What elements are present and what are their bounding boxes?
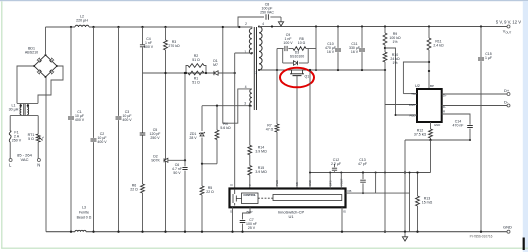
- wire R3 branch down to return bus: [165, 73, 167, 232]
- resistor R14 3.9M: [248, 145, 252, 155]
- svg-text:FB: FB: [348, 189, 352, 193]
- capacitor C9 1nF 100V: [285, 46, 287, 51]
- U1 CONTROL block: [242, 193, 259, 204]
- svg-text:FBD: FBD: [410, 114, 417, 118]
- bias winding pin4 loop wire: [223, 27, 252, 123]
- junction rail-C3: [117, 26, 119, 28]
- wire FB net link: [375, 173, 377, 194]
- svg-text:D1M7: D1M7: [213, 59, 218, 67]
- bias node wire: [202, 163, 217, 165]
- wire RT1 to L1: [37, 116, 39, 134]
- transformer T1 secondary winding (pins 4-3): [259, 27, 262, 71]
- wire C13 to FB wire: [362, 183, 364, 193]
- capacitor C4 1nF 500V: [140, 45, 145, 47]
- wire U1 S pin to primary return bus: [232, 207, 234, 231]
- wire C15 to GND bus: [480, 61, 482, 232]
- transformer T1 bias winding (pins 4-3): [250, 89, 252, 106]
- wire U1 BPP pin to C7: [243, 207, 251, 219]
- wire C7 to bus: [242, 224, 244, 232]
- junction R3 branch - D2: [164, 159, 166, 161]
- wire pin2 to rail: [250, 27, 252, 29]
- wire C3 to return bus: [118, 120, 120, 232]
- wire rail to C10: [337, 27, 339, 48]
- wire U2 GND pin down: [430, 122, 432, 129]
- wire return to U2 FA/P: [384, 70, 386, 105]
- wire bridge AC1 to choke: [17, 66, 34, 103]
- junction return-GND: [309, 69, 311, 71]
- secondary switching node wire: [259, 69, 385, 71]
- capacitor C3 10uF 400V: [116, 117, 122, 119]
- capacitor C1 10uF 400V: [68, 117, 74, 119]
- wire N to RT1: [37, 142, 39, 159]
- wire R15 to U1 V pin: [249, 175, 251, 188]
- fuse F1 2A 250V: [9, 131, 11, 142]
- wire U1 BPS pin up to net: [329, 173, 331, 189]
- wire secondary node to R7: [276, 70, 278, 124]
- wire U1 IS pin to GND bus: [341, 207, 343, 231]
- svg-text:SR: SR: [295, 182, 299, 186]
- capacitor C10 470uF 16V: [335, 49, 341, 51]
- wire U2 gnd net to GND bus: [404, 140, 406, 232]
- svg-text:TM: TM: [411, 92, 416, 96]
- wire rail to Y-cap C8: [238, 17, 264, 27]
- capacitor C15 1uF: [478, 58, 484, 60]
- transformer T1 core: [253, 27, 255, 110]
- junction pin3-R14: [249, 105, 251, 107]
- wire bridge + output to DC rail: [45, 27, 47, 55]
- svg-text:U2: U2: [415, 84, 420, 88]
- diode D1 M7 (clamp): [214, 71, 218, 75]
- svg-text:D-: D-: [443, 105, 446, 109]
- bias pin3 sense wire: [202, 105, 252, 107]
- junction bus: [384, 231, 386, 233]
- svg-text:D+: D+: [504, 88, 510, 93]
- U1 internal primary MOSFET: [233, 189, 242, 206]
- wire C1 to return bus: [70, 120, 72, 232]
- wire R12 node down: [430, 140, 432, 173]
- junction rail-bias loop: [222, 26, 224, 28]
- svg-text:V: V: [248, 184, 252, 186]
- wire rail to C3: [118, 27, 120, 116]
- resistor R3 270k: [164, 40, 168, 50]
- wire R14 to R15: [249, 155, 251, 166]
- primary DC+ rail left segment: [46, 26, 76, 28]
- wire rail to R9: [384, 27, 386, 34]
- wire C2 to return bus: [93, 142, 95, 232]
- inductor L2 220uH: [75, 25, 89, 27]
- wire R9 to R10: [384, 45, 386, 52]
- wire pin1 to drain line: [235, 52, 252, 54]
- capacitor C6 4.7nF 50V: [182, 168, 187, 170]
- primary return / secondary GND bus: [46, 231, 75, 233]
- clamp bus: [143, 72, 235, 74]
- earth arrow to secondary rail: [280, 17, 282, 23]
- wire rail to R3: [165, 27, 167, 40]
- wire R6 to return bus: [142, 193, 144, 232]
- thermistor RT1 5 ohm: [36, 134, 40, 142]
- wire rail to C11: [361, 27, 363, 48]
- snubber right leg to +V rail: [315, 27, 317, 71]
- wire divider tap to U2 FBD: [385, 48, 396, 115]
- junction rail-C1: [70, 26, 72, 28]
- wire into U2 FA/P pin: [385, 104, 417, 106]
- wire U2 R pin to C14: [442, 114, 470, 125]
- Y-capacitor C8 100pF 250VAC: [266, 14, 268, 20]
- svg-text:4: 4: [262, 22, 264, 26]
- long vertical wire clamp bus to bias node: [184, 73, 186, 160]
- primary DC+ rail right segment: [89, 26, 250, 28]
- svg-text:5 V, 9 V, 12 V: 5 V, 9 V, 12 V: [496, 20, 521, 25]
- junction TM tap: [428, 61, 430, 63]
- red highlight ellipse around Q1: [280, 68, 314, 88]
- wire F1 to L1: [9, 116, 11, 131]
- snubber left leg: [276, 49, 278, 71]
- wire R10 to return: [384, 62, 386, 70]
- resistor R6 22 ohm: [141, 184, 145, 193]
- capacitor C2 10uF 400V: [91, 139, 97, 141]
- diode D2 (bias rectifier): [164, 158, 168, 162]
- wire rail to C15: [480, 27, 482, 58]
- wire bridge - output to primary return bus: [45, 77, 47, 232]
- wire U2 D- to terminal: [442, 105, 507, 107]
- svg-text:PI-7856-010716: PI-7856-010716: [470, 235, 493, 239]
- junction rail-C8: [238, 26, 240, 28]
- wire secondary return to U1 GND pin: [309, 70, 311, 189]
- GND bus right segment: [86, 231, 509, 233]
- svg-text:IS: IS: [343, 210, 346, 214]
- common-mode choke L1 30uH: [17, 102, 38, 104]
- svg-text:GND: GND: [503, 225, 512, 230]
- IC U1 InnoSwitch-CP: [230, 189, 346, 208]
- U1 internal dashed link: [258, 197, 273, 199]
- wire net to C13: [362, 173, 364, 180]
- wire R13 to GND bus: [417, 206, 419, 232]
- wire into U2 FBD pin: [396, 114, 418, 116]
- wire bias net to ZD1: [201, 106, 203, 131]
- resistor R5 22 ohm: [200, 186, 204, 195]
- resistor R12 37.5k: [429, 129, 433, 138]
- wire rail to R11: [428, 27, 430, 39]
- wire bias net to R4: [216, 106, 218, 130]
- svg-text:1: 1: [244, 50, 246, 54]
- resistor R13 15 mohm: [416, 196, 420, 206]
- svg-text:S: S: [230, 210, 232, 214]
- wire U1 FB pin right: [346, 192, 410, 194]
- ferrite bead L3 0 ohm: [75, 230, 86, 231]
- wire rail to C2: [93, 27, 95, 138]
- resistor R7 47 ohm: [275, 124, 279, 132]
- wire ZD1 to node: [201, 138, 203, 164]
- secondary BPS/VOUT net wire: [310, 172, 431, 174]
- terminal VOUT: [507, 25, 510, 28]
- wire R11 to U2 BP pin: [428, 50, 430, 89]
- wire bias pin3 to R14: [249, 106, 251, 146]
- diode D3 SS10100: [282, 49, 284, 64]
- svg-text:2: 2: [245, 22, 247, 26]
- svg-text:Q1: Q1: [305, 74, 310, 78]
- resistor R8 10 ohm: [293, 47, 306, 51]
- wire R7 to U1 FWD pin: [276, 132, 278, 189]
- wire C10 down: [337, 52, 339, 70]
- wire C4 to clamp bus: [142, 47, 144, 73]
- capacitor C12 2.2uF: [334, 171, 336, 172]
- capacitor C13 47uF: [360, 180, 366, 182]
- junction rail-R3: [164, 26, 166, 28]
- capacitor C7 100nF 25V: [240, 221, 246, 223]
- terminal N (AC neutral input): [37, 159, 40, 162]
- wire to C6: [184, 160, 186, 166]
- snubber branch C9 + R8: [277, 48, 284, 50]
- capacitor C5 120pF 250V: [140, 133, 146, 135]
- secondary +V output rail: [259, 26, 509, 28]
- svg-text:4: 4: [245, 85, 247, 89]
- svg-text:FA/P: FA/P: [409, 103, 416, 107]
- wire R3 to clamp bus: [165, 50, 167, 73]
- wire R5 to return bus: [201, 195, 203, 232]
- svg-text:C1347 pF: C1347 pF: [358, 158, 367, 166]
- wire rail to C4: [142, 27, 144, 44]
- wire node to R5: [201, 164, 203, 186]
- svg-text:3: 3: [255, 71, 257, 75]
- transformer T1 primary winding (pins 2-1): [249, 29, 252, 55]
- wire to R13: [417, 173, 419, 197]
- svg-text:ZD128 V: ZD128 V: [189, 132, 197, 140]
- wire TM tap to U2 TM pin: [403, 62, 429, 94]
- svg-text:N: N: [37, 163, 40, 168]
- wire L to fuse F1: [9, 142, 11, 159]
- U2 ground net wire: [405, 139, 470, 141]
- capacitor C14 470nF: [467, 126, 473, 128]
- junction bias node: [201, 163, 203, 165]
- svg-text:D-: D-: [504, 100, 509, 105]
- wire R12 to gnd net: [430, 138, 432, 140]
- svg-text:GND: GND: [434, 123, 440, 127]
- IC U2 CHY103 interface controller: [417, 89, 442, 122]
- junction rail-C4: [141, 26, 143, 28]
- terminal GND: [507, 230, 510, 233]
- wire Q1 gate to U1 SR pin: [296, 76, 298, 189]
- resistor R4 5.6k: [215, 130, 219, 140]
- wire U2 D+ to terminal: [442, 93, 507, 95]
- wire C6 to return bus: [184, 171, 186, 232]
- wire U1 VOUT pin up to net: [340, 173, 342, 189]
- junction pin1: [251, 52, 253, 54]
- wire R4 to node: [216, 140, 218, 164]
- resistor R9 100k 1%: [383, 33, 387, 45]
- wire D2 to C6: [168, 159, 185, 161]
- wire C14 to U2 gnd net: [469, 129, 471, 140]
- wire bridge AC2 to choke: [38, 66, 63, 103]
- primary drain line to U1 D pin: [234, 53, 236, 189]
- junction rail-C2: [92, 26, 94, 28]
- U1 secondary controller block: [273, 195, 342, 201]
- wire C11 down: [361, 52, 363, 70]
- capacitor C11 330uF 16V: [359, 49, 365, 51]
- wire into U2 TM pin: [403, 93, 417, 95]
- wire C8 to secondary arrow: [270, 16, 281, 18]
- svg-text:RT15 Ω: RT15 Ω: [28, 133, 35, 141]
- svg-text:CONTROL: CONTROL: [243, 193, 256, 197]
- bridge rectifier BD1 ABS210: [34, 55, 57, 77]
- junction clamp-drain: [234, 72, 236, 74]
- terminal L (AC line input): [9, 159, 12, 162]
- svg-text:3: 3: [244, 102, 246, 106]
- earth ground arrow symbol: [404, 232, 406, 238]
- zener ZD1 28V: [200, 133, 204, 136]
- resistor R10 24k 1%: [383, 52, 387, 62]
- resistor R2 51 ohm (clamp, parallel upper): [186, 66, 188, 74]
- resistor R11 2.4k: [427, 38, 431, 50]
- wire FB branch down to GND bus: [409, 173, 411, 232]
- wire C5 down to R6: [142, 135, 144, 184]
- resistor R1 51 ohm (clamp, lower): [188, 71, 204, 75]
- junction pin3-R4: [216, 105, 218, 107]
- svg-text:BP: BP: [430, 84, 434, 88]
- resistor R15 3.9M: [248, 166, 252, 176]
- wire clamp bus down to C5: [142, 73, 144, 133]
- SR MOSFET Q1: [291, 70, 293, 74]
- svg-text:C151 µF: C151 µF: [485, 52, 492, 60]
- svg-text:D+: D+: [443, 94, 447, 98]
- wire FA/P branch down to GND bus: [384, 105, 386, 232]
- wire rail to C1: [70, 27, 72, 116]
